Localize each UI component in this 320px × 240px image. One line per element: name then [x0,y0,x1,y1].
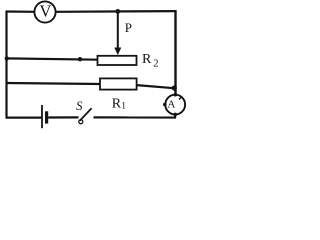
svg-text:P: P [125,20,132,35]
svg-text:R: R [112,97,122,112]
wire: right vertical bus (top corner down to ammeter) [174,10,176,95]
ammeter A circle [165,95,185,115]
svg-text:2: 2 [153,59,158,70]
wire: bottom bus right segment (switch to ammeter) [94,116,177,118]
node junction dot on top bus (slider tap) [115,9,120,14]
wire: ammeter bottom stub [174,114,176,117]
wire: top bus right segment (voltmeter to top-right corner) [56,10,177,13]
svg-text:1: 1 [121,101,126,111]
resistor R1 [100,78,137,89]
ammeter left terminal dot [163,103,167,107]
switch S blade (open) [80,108,92,121]
wire: bottom bus left segment (corner to battery) [6,116,42,118]
ammeter bottom terminal dot [173,113,177,117]
wire: left vertical bus [5,11,7,117]
wire: left bus to R1 [7,83,101,84]
wire: R1 to right bus [137,85,175,88]
switch S hinge circle [79,120,83,124]
svg-text:A: A [167,98,175,110]
node junction dot at left bus R2 branch [5,56,9,60]
battery short plate (negative) [45,111,48,123]
node junction dot at right bus [172,85,177,90]
ammeter needle tick [179,98,181,100]
op-amp voltmeter V circle [34,1,55,22]
svg-text:V: V [39,2,51,21]
wire: slider arm vertical line P [117,11,119,49]
slider arrowhead pointing to R2 [114,48,121,56]
wire: battery to switch [48,116,78,118]
svg-text:R: R [142,52,152,67]
wire: top bus left segment (corner to voltmeter) [6,10,36,13]
battery long plate (positive) [41,105,43,128]
ammeter top terminal dot [174,93,178,97]
node junction dot on R2 branch wire [78,57,82,61]
svg-text:S: S [76,98,83,113]
wire: left bus to R2 [7,58,98,59]
resistor R2 (rheostat body) [98,56,137,65]
